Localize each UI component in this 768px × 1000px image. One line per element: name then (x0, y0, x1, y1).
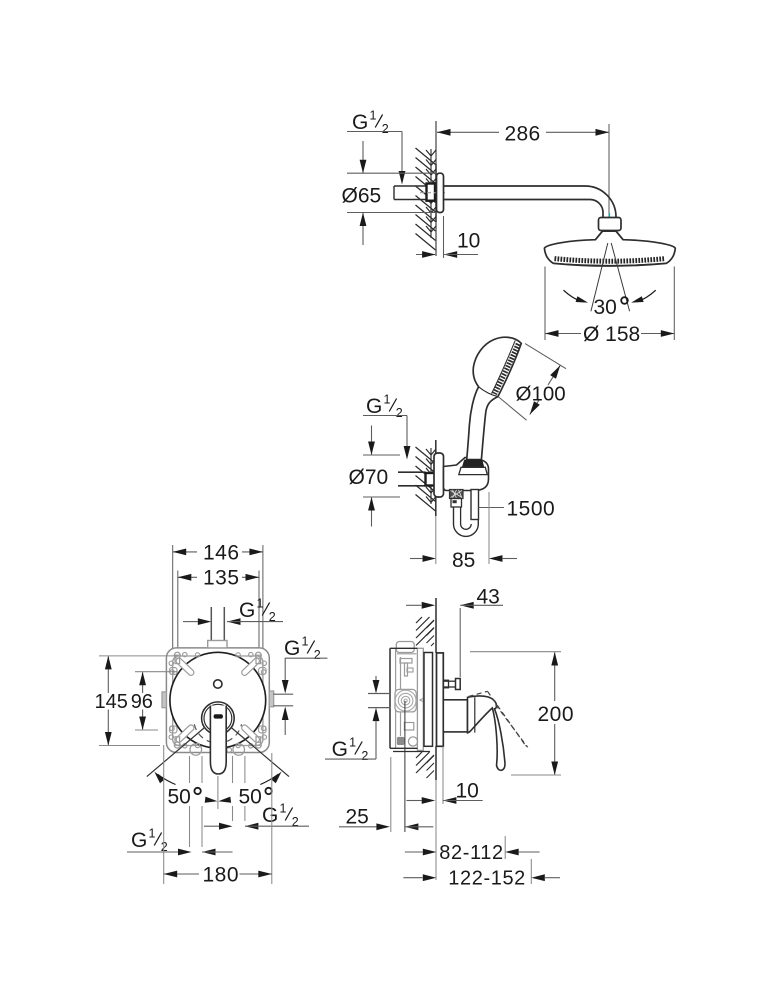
svg-text:G: G (239, 599, 255, 622)
svg-text:G: G (332, 738, 348, 761)
svg-text:1: 1 (384, 393, 391, 407)
svg-text:43: 43 (477, 586, 500, 609)
svg-text:1: 1 (257, 597, 264, 611)
svg-text:2: 2 (361, 749, 368, 763)
svg-text:2: 2 (396, 406, 403, 420)
svg-text:145: 145 (95, 691, 128, 713)
svg-text:1: 1 (349, 736, 356, 750)
svg-text:286: 286 (505, 123, 541, 146)
svg-text:G: G (262, 804, 278, 827)
svg-text:G: G (352, 111, 368, 134)
svg-text:1: 1 (149, 827, 156, 841)
svg-text:G: G (131, 829, 147, 852)
svg-text:135: 135 (203, 567, 240, 590)
svg-text:85: 85 (452, 549, 475, 572)
svg-text:200: 200 (538, 703, 575, 726)
svg-text:Ø65: Ø65 (342, 185, 382, 208)
svg-text:122-152: 122-152 (448, 867, 526, 889)
svg-text:25: 25 (346, 806, 369, 829)
svg-text:2: 2 (292, 815, 299, 829)
svg-text:1: 1 (370, 109, 377, 123)
svg-text:Ø 158: Ø 158 (583, 323, 640, 346)
svg-text:30: 30 (594, 296, 617, 319)
svg-text:G: G (284, 637, 300, 660)
svg-text:2: 2 (382, 122, 389, 136)
svg-text:10: 10 (457, 230, 480, 253)
svg-text:146: 146 (203, 541, 240, 564)
svg-text:1: 1 (280, 802, 287, 816)
svg-text:96: 96 (131, 691, 153, 713)
svg-text:Ø70: Ø70 (349, 466, 389, 489)
svg-text:1: 1 (302, 635, 309, 649)
svg-text:10: 10 (456, 780, 479, 803)
svg-text:180: 180 (203, 863, 240, 886)
svg-text:82-112: 82-112 (439, 842, 503, 864)
svg-text:2: 2 (314, 648, 321, 662)
svg-text:G: G (366, 395, 382, 418)
svg-text:50: 50 (239, 786, 262, 809)
svg-text:50: 50 (168, 786, 191, 809)
svg-text:1500: 1500 (507, 498, 556, 521)
svg-text:Ø100: Ø100 (516, 383, 566, 406)
